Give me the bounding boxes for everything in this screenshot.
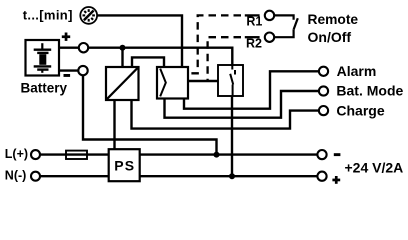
wire: charger down to PS	[113, 100, 115, 149]
charger box U1 (DC/DC with diagonal)	[106, 67, 139, 100]
wire: node A down to charger box	[121, 48, 123, 67]
R2 label with overline	[245, 36, 260, 38]
svg-text:Bat. Mode: Bat. Mode	[336, 83, 403, 99]
terminal circle plus output	[317, 172, 326, 181]
junction dot minus rail to output	[214, 152, 220, 158]
terminal circle battery +	[79, 43, 88, 52]
fuse F1	[66, 151, 87, 159]
wire: N(-) line across to plus output	[40, 175, 317, 177]
terminal circle minus output	[317, 150, 326, 159]
wire: L(+) line across to minus output	[40, 153, 317, 155]
remote on/off switch S1	[274, 15, 298, 37]
junction dot switch to plus output	[229, 173, 235, 179]
R1 label with overline	[245, 14, 260, 16]
wire: switch box down to plus output	[231, 96, 233, 176]
wire: battery - to terminal	[59, 69, 78, 71]
wire: alarm signal	[184, 71, 319, 108]
terminal circle alarm	[319, 67, 328, 76]
diode box U2	[157, 67, 188, 99]
svg-text:R2: R2	[246, 37, 262, 51]
svg-text:Charge: Charge	[336, 102, 384, 118]
dashed control wire R2	[208, 37, 241, 80]
svg-text:+24 V/2A: +24 V/2A	[345, 159, 404, 175]
wire: battery plus bus to switch box	[88, 48, 232, 66]
terminal circle N	[31, 172, 40, 181]
svg-text:L(+): L(+)	[5, 147, 28, 161]
svg-text:N(-): N(-)	[5, 169, 27, 183]
minus polarity mark	[64, 74, 71, 77]
svg-text:Alarm: Alarm	[337, 63, 377, 79]
wire: diode box to switch box	[188, 80, 218, 82]
terminal circle L	[31, 150, 40, 159]
minus output mark	[334, 153, 341, 156]
plus output mark	[332, 176, 340, 184]
battery box	[26, 40, 60, 76]
terminal circle bat mode	[319, 86, 328, 95]
wire: charge signal	[132, 100, 319, 129]
terminal circle battery -	[78, 66, 87, 75]
battery symbol	[34, 43, 52, 73]
wire: charger to diode box bridge	[132, 57, 164, 67]
svg-text:Battery: Battery	[21, 80, 68, 95]
svg-text:R1: R1	[246, 14, 262, 28]
wire: bat mode signal	[165, 91, 319, 118]
timer dial icon	[80, 7, 97, 24]
wire: battery + to terminal	[59, 47, 79, 49]
svg-text:PS: PS	[114, 157, 135, 173]
wire: battery minus return rail	[83, 75, 217, 154]
plus polarity mark	[62, 33, 70, 41]
junction dot node A	[120, 45, 126, 51]
svg-text:Remote: Remote	[308, 12, 359, 27]
svg-text:On/Off: On/Off	[308, 29, 352, 45]
wire: timer dial to node T and down into diode box top	[97, 15, 182, 67]
dashed control wire R1	[189, 15, 242, 73]
terminal circle R1	[265, 11, 274, 20]
terminal circle charge	[319, 106, 328, 115]
svg-text:t...[min]: t...[min]	[23, 7, 73, 22]
terminal circle R2	[265, 33, 274, 42]
PS box	[109, 149, 140, 181]
switch box U3	[218, 65, 243, 96]
